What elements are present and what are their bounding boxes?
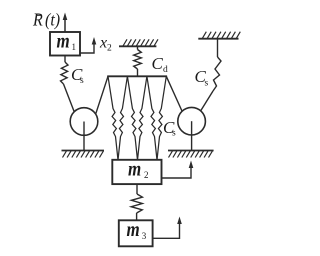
svg-text:d: d	[163, 65, 168, 75]
inclined spring strand 6	[157, 76, 166, 160]
svg-text:C: C	[152, 54, 164, 73]
svg-text:R: R	[32, 10, 43, 30]
svg-text:s: s	[172, 129, 176, 139]
left pulley	[70, 108, 98, 136]
svg-text:m: m	[57, 30, 70, 53]
inclined spring strand 5	[147, 76, 157, 160]
inclined spring strand 1	[108, 76, 118, 160]
inclined spring strand 2	[118, 76, 127, 160]
svg-text:x: x	[99, 35, 107, 52]
svg-text:1: 1	[72, 42, 77, 52]
cord spring to right pulley	[200, 91, 213, 111]
svg-text:m: m	[126, 218, 139, 241]
right ceiling	[198, 38, 238, 40]
cord spring to left pulley	[64, 84, 75, 112]
svg-text:(t): (t)	[45, 10, 60, 30]
svg-text:s: s	[205, 79, 209, 89]
suspension bar	[107, 75, 167, 77]
svg-text:s: s	[80, 76, 84, 86]
svg-text:2: 2	[144, 170, 149, 180]
spring Cs right	[217, 39, 219, 57]
arrow R(t) up	[64, 20, 66, 33]
displacement x2 arrow	[80, 44, 94, 54]
svg-text:3: 3	[142, 231, 147, 241]
left ground	[62, 150, 105, 152]
inclined spring strand 4	[138, 76, 147, 160]
mass m2	[112, 160, 161, 184]
svg-text:2: 2	[107, 44, 112, 54]
right ground	[168, 150, 214, 152]
spring between m2 and m3	[136, 184, 138, 194]
inclined spring strand 3	[127, 76, 137, 160]
middle ceiling	[119, 45, 156, 47]
spring Cs left	[64, 56, 66, 62]
svg-text:m: m	[128, 158, 141, 181]
right pulley	[178, 107, 206, 135]
mass m3	[119, 220, 153, 246]
cord left pulley to bar	[96, 76, 108, 114]
arrow m2 reference up	[162, 167, 192, 178]
spring Cd	[137, 46, 139, 49]
arrow m3 reference up	[153, 224, 180, 238]
cord bar to right pulley	[166, 76, 182, 111]
mass m1	[50, 32, 80, 56]
